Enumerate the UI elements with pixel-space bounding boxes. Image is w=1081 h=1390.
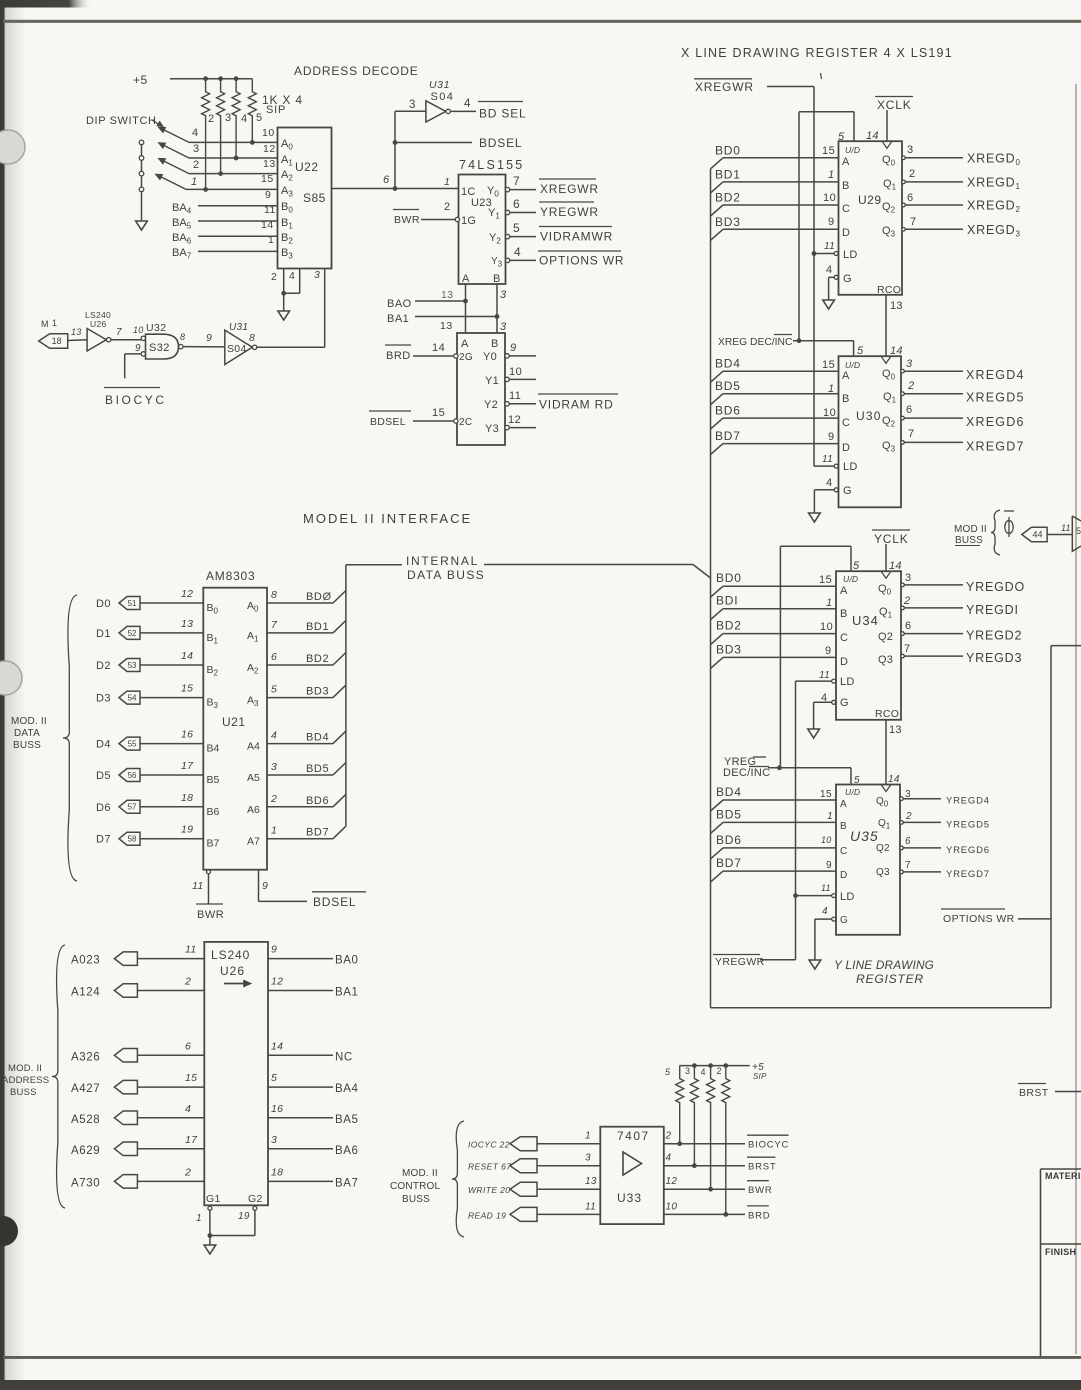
svg-text:2G: 2G [459,352,473,363]
U30 U/D label [845,360,860,370]
svg-text:8: 8 [180,332,185,342]
wire D4 to U21 [140,743,203,745]
wire +5 rail [170,78,252,80]
svg-text:6: 6 [907,192,914,204]
svg-text:YREGD7: YREGD7 [946,869,990,880]
svg-text:+5: +5 [133,73,148,87]
wire BD7 diagonal to bus [333,826,346,839]
U35 G bubble [832,917,836,921]
U21 pin 15 label [181,683,193,695]
svg-text:A: A [462,273,470,285]
svg-text:G: G [840,915,848,926]
svg-text:BA6: BA6 [335,1145,359,1157]
svg-text:2: 2 [907,380,914,392]
connector D0 pin 51 [119,597,140,610]
svg-text:4: 4 [826,477,833,489]
wire YREGD3 [904,655,963,657]
U33 pin 12 label [666,1176,678,1187]
svg-text:U31: U31 [229,322,248,333]
svg-text:11: 11 [824,241,835,252]
left page edge shading [0,0,26,1390]
svg-text:BRST: BRST [748,1162,777,1173]
svg-text:DATA BUSS: DATA BUSS [407,568,485,582]
pin 8 label (U32 out) [180,332,185,342]
wire XREGD0 [905,157,963,159]
svg-text:BD6: BD6 [716,833,742,847]
svg-text:YREGDO: YREGDO [966,580,1025,594]
svg-text:OPTIONS WR: OPTIONS WR [539,254,624,268]
svg-text:8: 8 [249,332,255,344]
svg-text:G: G [843,485,852,497]
svg-text:10: 10 [820,621,833,633]
dip switch arm 1 [159,127,190,142]
wire U33 out BIOCYC [664,1143,745,1145]
wire U32 lower input [125,354,141,378]
svg-text:A730: A730 [71,1177,100,1189]
net label /BDSEL (U23) [369,411,411,428]
wire BD4 to U30 [723,370,839,372]
U34 Q pin numbers [903,572,912,655]
svg-text:3: 3 [271,1134,277,1146]
pin 8 label (U31b) [249,332,255,344]
wire BRD to 2G [413,355,455,357]
U21 pin 3 label [271,761,277,773]
svg-text:U32: U32 [146,322,166,334]
U22 input labels B0-B3 [281,201,293,261]
label MOD II BUSS [954,524,987,546]
net label /BWR (U21) [196,904,224,921]
svg-text:YREGWR: YREGWR [540,205,599,219]
svg-text:DATA: DATA [14,728,40,739]
svg-text:11: 11 [1061,523,1071,533]
wire internal data bus vertical [345,565,347,826]
net label BD4 (Y) [716,785,742,799]
U22 pin numbers left [261,127,276,246]
svg-text:XCLK: XCLK [877,98,912,112]
label D0 [96,598,111,610]
svg-text:19: 19 [238,1211,250,1222]
U30 designator [856,409,882,423]
svg-text:BD2: BD2 [716,619,742,633]
net label BD3 (Y) [716,642,742,656]
switch row numbers 4 3 2 1 [191,127,200,188]
svg-text:B: B [493,273,501,285]
svg-text:D: D [840,870,848,881]
svg-text:B: B [842,393,850,405]
U35 LD bubble [832,894,836,898]
connector IOCYC 22 [510,1137,537,1151]
node +5 (top) [133,73,148,87]
wire BA1 to B [415,316,497,318]
net label /OPTIONS WR [538,251,624,268]
net label BD5 (X) [715,379,741,393]
svg-text:A528: A528 [71,1114,100,1126]
svg-text:YREGD5: YREGD5 [946,819,990,830]
wire D3 to U21 [140,697,203,699]
net label /BRST (right) [1018,1084,1049,1100]
svg-text:B7: B7 [207,838,220,850]
resistor RP1-2 (1K SIP) [217,79,225,174]
tick mark [821,73,822,79]
U21 pin 4 label [271,730,277,742]
wire switch row A0 [189,141,278,143]
svg-text:D5: D5 [96,770,111,782]
U21 BWR bubble [207,870,211,874]
label READ 19 [468,1210,506,1220]
net label /YREGWR [539,202,599,219]
junction dot U35 LD [793,893,798,898]
svg-text:BRD: BRD [748,1210,770,1221]
svg-text:READ 19: READ 19 [468,1210,506,1220]
U30 Q labels [882,368,897,454]
svg-text:MOD. II: MOD. II [11,716,47,727]
wire U31b output to U22 pin3 [257,346,325,348]
U34 pin 5 label [853,560,860,572]
net label BA5 [335,1114,359,1126]
U26 pin 12 label [271,976,283,988]
svg-text:U26: U26 [90,319,107,329]
U35 LD label [840,891,855,903]
U29 LD label [843,249,858,261]
net label BAO [387,298,412,310]
wire BD3 bus diagonal [711,229,724,240]
net label NC [335,1051,353,1063]
wire Y section bottom border [711,1007,1052,1009]
svg-text:IOCYC 22: IOCYC 22 [468,1140,510,1150]
brace MOD II ADDRESS BUSS [52,945,65,1208]
net label YREGD1 [966,603,1019,617]
U26 pin 2 label [184,1166,191,1178]
svg-text:LD: LD [840,676,855,688]
svg-text:6: 6 [513,197,520,211]
svg-text:2: 2 [903,595,910,607]
svg-text:7407: 7407 [617,1129,650,1143]
U21 output label A4 [247,741,260,753]
U21 pin 12 label [181,588,193,600]
svg-text:11: 11 [509,390,521,402]
U35 clock arrow [881,785,891,792]
net label BD6 (Y) [716,833,742,847]
svg-text:BA0: BA0 [335,955,359,967]
svg-text:B: B [840,821,847,832]
title X LINE DRAWING REGISTER 4XLS191 [681,46,953,60]
wire U21 pin11 down [208,874,210,904]
IC U26 LS240 box [204,942,268,1205]
wire U26 out BA7 [268,1180,333,1182]
wire Y2 stub [510,236,536,238]
svg-text:VIDRAMWR: VIDRAMWR [540,230,613,244]
junction dot pullup BIOCYC [677,1141,682,1146]
svg-text:12: 12 [181,588,193,600]
connector A427 [114,1080,137,1094]
svg-text:13: 13 [440,320,453,332]
svg-text:U26: U26 [220,964,245,978]
wire BD3 to U29 [723,228,839,230]
svg-text:13: 13 [441,289,453,301]
svg-text:6: 6 [383,174,390,186]
U23 lower A B labels [461,338,499,350]
wire switch row A1 [189,157,278,159]
svg-text:A124: A124 [71,987,100,999]
junction dot U22 gnd [281,291,286,296]
net label BA4 [335,1083,359,1095]
wire lower Y3 stub [509,427,536,429]
U21 output label A0 [247,600,259,614]
label 1K X 4 SIP [262,93,303,116]
svg-text:D: D [842,442,850,454]
U34 RCO pin 13 [889,724,902,736]
svg-text:57: 57 [128,803,137,812]
svg-text:4: 4 [241,113,248,125]
U21 pin 7 label [271,619,278,631]
connector D3 pin 54 [119,691,140,704]
svg-text:XREGD7: XREGD7 [966,439,1025,453]
svg-text:1: 1 [444,176,450,188]
wire M1 to U26f [68,339,87,342]
junction dot LD (U29) [812,251,817,256]
svg-text:5: 5 [271,684,277,696]
net label YREGD0 [966,580,1025,594]
connector D4 pin 55 [119,737,140,750]
net label BA1 [335,987,359,999]
wire +5 SIP rail (U33) [680,1065,750,1067]
junction dots resistor bottoms [203,140,255,192]
label D7 [96,834,111,846]
label +5 SIP (U33) [752,1062,767,1081]
svg-text:DIP SWITCH: DIP SWITCH [86,115,157,127]
label BA6 [172,232,192,246]
net label BD1 (X) [715,167,741,181]
U30 pin labels left [822,359,836,489]
svg-text:BD3: BD3 [306,686,329,698]
label A629 [71,1145,100,1157]
svg-text:16: 16 [181,729,193,741]
net label BD1 (Y) [716,594,738,608]
wire U22 pin4 down [284,269,300,294]
svg-text:13: 13 [181,618,193,630]
svg-text:D: D [842,227,850,239]
junction dot pullup BWR [708,1187,713,1192]
U29 U/D label [845,145,860,155]
U26 pin 9 label [271,944,277,956]
svg-text:BWR: BWR [197,909,224,921]
svg-text:55: 55 [128,739,137,748]
U23 output bubbles [505,187,509,262]
net label BD2 (Y) [716,619,742,633]
svg-text:A: A [840,799,847,810]
svg-text:BA1: BA1 [335,987,359,999]
title block label MATERIAL [1045,1171,1081,1181]
wire YREG U/D bracket [780,546,851,768]
wire U30 G [814,490,834,513]
connector D5 pin 56 [119,769,140,782]
svg-text:4: 4 [271,730,277,742]
wire BD4 bus diagonal (X) [711,371,724,382]
svg-text:3: 3 [314,269,320,281]
svg-text:BD2: BD2 [306,653,329,665]
net label BD5 (U21) [306,763,329,775]
wire U21 A0 out [267,602,333,604]
wire XREGD5 [904,393,963,395]
svg-text:11: 11 [821,883,831,893]
svg-text:14: 14 [432,342,445,354]
wire BD3 bus diagonal (Y) [711,657,724,668]
wire BA7 to U22 [198,250,278,252]
svg-text:BRD: BRD [386,350,411,362]
U23 label 2G [459,352,473,363]
wire U21 A6 out [267,806,333,808]
net label YREGD6 [946,845,990,856]
net label /BIOCYC [747,1135,789,1151]
U23 designator [471,197,492,209]
wire data bus diagonal [693,565,711,579]
wire G1 down [209,1210,211,1245]
net label BA1 [387,313,409,325]
resistor RP1-4 (1K SIP) [248,79,256,143]
connector RESET 67 [510,1159,537,1173]
svg-text:6: 6 [905,620,912,632]
title block label FINISH [1045,1247,1076,1257]
U30 G bubble [834,488,838,492]
svg-text:14: 14 [889,560,902,572]
svg-text:Y2: Y2 [484,399,498,411]
svg-text:WRITE 20: WRITE 20 [468,1185,510,1195]
svg-text:BDI: BDI [716,594,738,608]
wire RESET 67 to U33 [537,1165,600,1167]
svg-text:4: 4 [701,1067,707,1077]
junction dot DEC/INC [797,338,802,343]
wire BD0 bus diagonal [711,158,724,169]
svg-text:A: A [461,338,469,350]
svg-text:XREGWR: XREGWR [540,182,599,196]
svg-text:A326: A326 [71,1051,100,1063]
svg-text:7: 7 [905,860,911,871]
label Y LINE DRAWING REGISTER [834,958,934,986]
net label XREGD2 [967,199,1021,215]
svg-text:19: 19 [181,824,193,836]
svg-text:BD5: BD5 [306,763,329,775]
svg-text:A023: A023 [71,955,100,967]
wire BD2 to U29 [723,204,839,206]
connector A326 [114,1049,137,1063]
junction dot BDSEL tap [393,140,398,145]
svg-text:BDSEL: BDSEL [370,416,406,428]
svg-text:3: 3 [906,358,913,370]
U29 pin 5 label [838,131,845,143]
brace MOD II BUSS [991,510,1000,555]
svg-text:3: 3 [685,1066,691,1076]
label A730 [71,1177,100,1189]
svg-text:BD3: BD3 [715,215,741,229]
U35 pin 14 label [888,774,900,785]
U30 Q pin circles [901,369,905,444]
U23 A B labels upper [462,273,501,285]
wire BD4 bus diagonal (Y) [711,800,724,811]
svg-text:15: 15 [432,407,445,419]
net label /VIDRAMWR [539,227,613,244]
wire switch row A3 [186,188,278,190]
svg-text:3: 3 [907,144,914,156]
svg-text:D: D [840,656,848,668]
svg-text:3: 3 [500,321,507,333]
svg-text:12: 12 [666,1176,678,1187]
label MOD. II CONTROL BUSS [390,1168,441,1205]
wire YREGD1 [904,607,963,609]
wire U21 A5 out [267,774,333,776]
U21 input label B2 [207,664,219,678]
svg-text:BAO: BAO [387,298,412,310]
U30 LD label [843,461,858,473]
svg-text:BIOCYC: BIOCYC [105,393,167,407]
svg-text:B: B [842,180,850,192]
wire BWR to 1G [421,219,456,221]
U33 buffer triangle [623,1152,642,1175]
svg-text:S04: S04 [227,343,247,355]
U30 pin 5 label [857,345,864,357]
wire to ground [283,293,285,311]
svg-text:14: 14 [890,345,903,357]
punch hole 2 [0,661,22,695]
svg-text:4: 4 [514,245,521,259]
svg-text:13: 13 [71,327,81,337]
svg-text:4: 4 [822,906,828,917]
net label BD2 (U21) [306,653,329,665]
svg-text:7: 7 [910,216,917,228]
wire U21 A2 out [267,664,333,666]
svg-text:ADDRESS DECODE: ADDRESS DECODE [294,64,419,78]
label D2 [96,660,111,672]
IC U23 74LS155 lower box [457,333,505,445]
svg-text:A629: A629 [71,1145,100,1157]
IC U22 S85 box [278,128,332,269]
svg-text:54: 54 [128,693,137,702]
IC U30 LS191 box [839,356,902,507]
U26 pin 17 label [185,1134,198,1146]
svg-text:A4: A4 [247,741,260,753]
U23 2G bubble [454,354,458,358]
svg-text:2: 2 [208,113,215,125]
junction dot BA1/B [495,314,500,319]
svg-text:Q3: Q3 [878,654,893,666]
svg-text:BD0: BD0 [716,571,742,585]
svg-text:D2: D2 [96,660,111,672]
svg-text:14: 14 [866,130,879,142]
U26 pin 18 label [271,1166,283,1178]
net label YREG DEC/INC [723,756,770,779]
U33 pin 11 label [585,1201,596,1212]
net label YREGD7 [946,869,990,880]
svg-text:3: 3 [271,761,277,773]
pin 3 label (B upper) [500,289,507,301]
svg-text:U33: U33 [617,1191,642,1205]
svg-text:4: 4 [192,127,199,139]
wire BD6 diagonal to bus [333,794,346,807]
label MOD. II ADDRESS BUSS [2,1063,49,1098]
wire U26 out BA4 [268,1086,333,1088]
U23 label 1G [461,215,476,227]
svg-text:14: 14 [888,774,900,785]
svg-text:REGISTER: REGISTER [856,972,924,986]
wire OPTIONS WR [1018,918,1051,920]
svg-text:5: 5 [1076,526,1081,536]
svg-text:2: 2 [717,1066,723,1076]
U21 output label A7 [247,836,260,848]
net label BD5 (Y) [716,807,742,821]
svg-text:BD3: BD3 [716,642,742,656]
label U31 (lower) [229,322,248,333]
inverter U26f LS240 [87,329,111,352]
wire BD3 diagonal to bus [333,685,346,698]
